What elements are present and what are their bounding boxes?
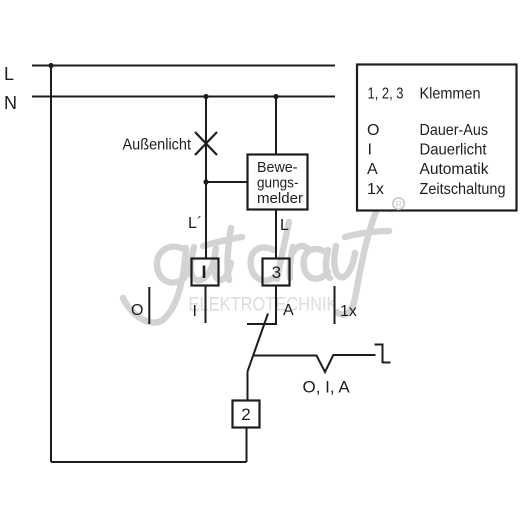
svg-text:Bewe-: Bewe- — [257, 159, 298, 176]
svg-text:gungs-: gungs- — [257, 175, 299, 192]
wire riser to terminal 2 — [246, 428, 248, 462]
svg-text:A: A — [283, 302, 294, 319]
wire L line — [32, 65, 335, 67]
junction dot on L line — [48, 63, 53, 68]
junction dot on N line at detector branch — [273, 94, 278, 99]
wire node to motion detector — [206, 181, 248, 183]
terminal box 3 — [263, 259, 290, 286]
svg-text:O: O — [367, 122, 379, 139]
wire bottom return — [51, 461, 247, 463]
lamp X Aussenlicht — [195, 132, 217, 155]
junction dot on N line at lamp branch — [203, 94, 208, 99]
svg-text:L: L — [4, 64, 14, 84]
motion detector U1 Bewegungsmelder — [248, 155, 308, 210]
svg-text:N: N — [4, 93, 17, 113]
watermark logo script "gut drauf" — [123, 203, 391, 323]
svg-text:2: 2 — [241, 405, 250, 424]
svg-text:1x: 1x — [340, 303, 357, 320]
junction dot node L' — [203, 179, 208, 184]
position O tick — [148, 287, 150, 324]
svg-text:R: R — [396, 199, 402, 209]
svg-text:Automatik: Automatik — [420, 161, 490, 178]
svg-text:O, I, A: O, I, A — [303, 378, 351, 397]
legend box — [357, 65, 517, 211]
svg-text:ELEKTROTECHNIK: ELEKTROTECHNIK — [189, 295, 338, 316]
svg-text:Zeitschaltung: Zeitschaltung — [420, 181, 506, 198]
wire to remote with break symbol — [253, 355, 375, 372]
wire below terminal 3 with contact bar — [247, 286, 276, 324]
svg-text:3: 3 — [272, 263, 281, 282]
svg-text:Außenlicht: Außenlicht — [123, 137, 192, 154]
wire detector output — [275, 210, 277, 259]
svg-text:Klemmen: Klemmen — [420, 86, 481, 103]
watermark registered trademark — [393, 198, 404, 209]
svg-text:A: A — [367, 161, 378, 178]
wire lamp branch — [205, 97, 207, 259]
svg-text:O: O — [131, 302, 143, 319]
svg-text:L´: L´ — [188, 215, 202, 232]
svg-text:Dauerlicht: Dauerlicht — [420, 142, 488, 159]
wire below terminal 1 — [205, 286, 207, 323]
terminal box 2 — [233, 401, 260, 428]
wire N line — [32, 96, 335, 98]
svg-text:L: L — [280, 217, 289, 234]
svg-text:1x: 1x — [367, 181, 384, 198]
wire detector supply — [275, 97, 277, 155]
wire left drop from L — [50, 66, 52, 463]
terminal box 1 — [192, 259, 219, 286]
wire switch pole — [247, 372, 249, 401]
position 1x tick — [334, 286, 336, 324]
connector symbol — [375, 344, 391, 364]
svg-text:melder: melder — [257, 190, 303, 207]
svg-text:I: I — [368, 142, 372, 159]
switch lever — [248, 314, 269, 372]
svg-text:1, 2, 3: 1, 2, 3 — [368, 86, 404, 103]
svg-text:I: I — [193, 303, 197, 320]
svg-text:Dauer-Aus: Dauer-Aus — [420, 122, 489, 139]
